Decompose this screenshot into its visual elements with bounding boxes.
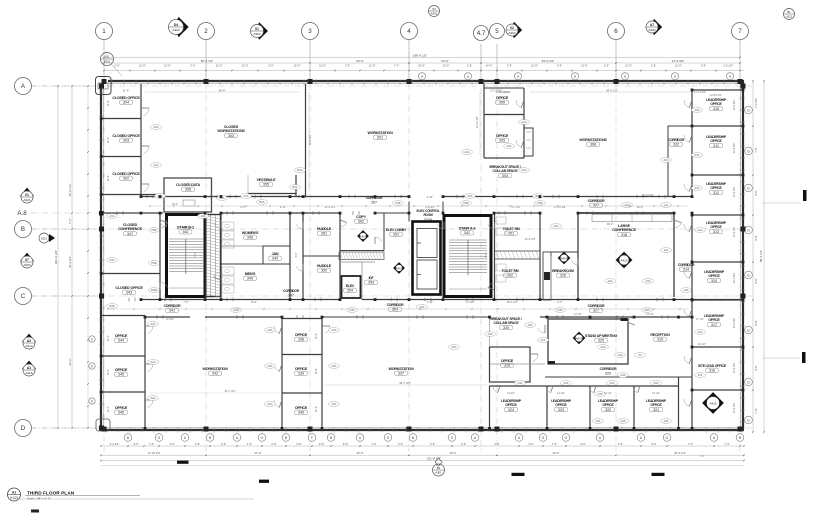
svg-text:12'-10": 12'-10" — [557, 392, 565, 395]
shaft east of stair B-2 (hatched) — [206, 215, 221, 297]
svg-text:LEADERSHIP: LEADERSHIP — [704, 270, 725, 274]
svg-text:A3A: A3A — [268, 328, 273, 332]
sheet edge mark bottom left — [31, 510, 39, 513]
svg-text:A321: A321 — [41, 236, 48, 240]
svg-text:28'-0": 28'-0" — [607, 222, 614, 226]
svg-text:A3A: A3A — [518, 381, 523, 385]
svg-text:12'-10": 12'-10" — [646, 313, 654, 316]
svg-text:325: 325 — [598, 339, 604, 343]
svg-text:26'-0 1/2": 26'-0 1/2" — [674, 451, 686, 455]
wall: corridor north wall y=196.5 — [141, 196, 408, 198]
svg-text:12'-6": 12'-6" — [443, 63, 450, 67]
svg-text:A2A: A2A — [151, 360, 156, 364]
window mullion ticks top wall — [111, 80, 113, 85]
svg-text:A3A: A3A — [695, 108, 700, 112]
svg-text:2'-6": 2'-6" — [114, 63, 119, 67]
svg-text:303: 303 — [228, 134, 234, 138]
svg-text:24'-6": 24'-6" — [552, 451, 559, 455]
svg-text:A.8: A.8 — [17, 210, 27, 217]
svg-text:7'-4 3/4": 7'-4 3/4" — [754, 98, 758, 108]
svg-text:HUDDLE: HUDDLE — [317, 227, 332, 231]
elevation marker A415 — [358, 231, 369, 242]
svg-text:11'-6": 11'-6" — [315, 368, 318, 374]
copy room walls — [340, 250, 384, 252]
svg-text:03: 03 — [105, 55, 109, 59]
svg-text:39'-0 1/2": 39'-0 1/2" — [542, 59, 555, 63]
top dimension tier 2 (segments) — [104, 70, 744, 72]
svg-text:LEADERSHIP: LEADERSHIP — [706, 98, 727, 102]
svg-text:A302: A302 — [648, 28, 655, 32]
svg-text:OFFICE: OFFICE — [602, 403, 614, 407]
svg-text:B3A: B3A — [293, 185, 298, 189]
right dimension tier 2 — [763, 81, 765, 432]
svg-text:BREAKOUT SPACE /: BREAKOUT SPACE / — [490, 317, 522, 321]
hatched band below copy room — [339, 252, 384, 260]
svg-text:5'-5": 5'-5" — [557, 300, 562, 304]
svg-text:3'-0": 3'-0" — [271, 442, 276, 446]
svg-text:346: 346 — [247, 236, 253, 240]
structural grid lines (horizontal) — [31, 85, 752, 87]
svg-text:340: 340 — [298, 411, 304, 415]
svg-text:PNE: PNE — [151, 261, 157, 265]
svg-text:C: C — [21, 293, 26, 300]
svg-text:10'-4": 10'-4" — [251, 300, 258, 304]
svg-text:1: 1 — [102, 28, 106, 35]
svg-text:33'-0": 33'-0" — [356, 59, 364, 63]
wall: vestibule — [248, 193, 296, 195]
office 338-340 column walls — [281, 319, 283, 431]
svg-text:A301: A301 — [435, 471, 442, 475]
svg-text:LARGE: LARGE — [618, 224, 631, 228]
svg-text:STAND UP MEETING: STAND UP MEETING — [585, 334, 618, 338]
svg-text:A3A: A3A — [465, 150, 470, 154]
svg-text:A3A: A3A — [244, 194, 249, 198]
svg-text:7'-0": 7'-0" — [688, 442, 693, 446]
exterior wall: bottom — [101, 429, 744, 431]
svg-text:CLOSED: CLOSED — [123, 223, 138, 227]
svg-text:3'-6": 3'-6" — [430, 442, 435, 446]
elevation marker A415 — [703, 393, 724, 414]
svg-text:12'-4 3/4": 12'-4 3/4" — [733, 100, 736, 111]
svg-text:337: 337 — [398, 372, 404, 376]
svg-text:304: 304 — [123, 101, 129, 105]
office 328 walls — [490, 347, 531, 382]
svg-text:COLLAB SPACE: COLLAB SPACE — [493, 169, 519, 173]
toilet fixtures — [496, 217, 506, 224]
grid bubble 3 — [302, 23, 319, 40]
svg-text:A3A: A3A — [618, 353, 623, 357]
svg-text:305: 305 — [499, 139, 505, 143]
svg-text:A415: A415 — [395, 266, 402, 270]
svg-text:07: 07 — [25, 258, 29, 262]
svg-text:G: G — [261, 436, 264, 440]
stair A-3 enclosure — [444, 216, 491, 297]
svg-text:VESTIBULE: VESTIBULE — [257, 178, 277, 182]
svg-text:3'-0": 3'-0" — [169, 442, 174, 446]
svg-text:213: 213 — [664, 248, 669, 252]
svg-text:301: 301 — [377, 136, 383, 140]
svg-text:303: 303 — [123, 139, 129, 143]
window mullion ticks left wall — [99, 91, 105, 93]
svg-text:A3A: A3A — [488, 332, 493, 336]
svg-text:16'-0": 16'-0" — [418, 63, 425, 67]
svg-text:a: a — [674, 75, 676, 79]
svg-text:329: 329 — [392, 308, 398, 312]
elevation marker A415 — [573, 332, 585, 344]
svg-text:OFFICE: OFFICE — [555, 403, 567, 407]
svg-text:a: a — [467, 75, 469, 79]
tags near bottom office row — [593, 419, 604, 424]
svg-text:COPY: COPY — [356, 215, 366, 219]
interior dim line y=91.5 workstations — [530, 91, 690, 93]
wall: corridor south wall y=213 — [101, 212, 163, 214]
svg-text:308: 308 — [590, 143, 596, 147]
svg-text:12'-10 3/4": 12'-10 3/4" — [710, 94, 722, 97]
svg-text:12'-4 3/4": 12'-4 3/4" — [733, 363, 736, 374]
svg-text:9'-11": 9'-11" — [280, 205, 286, 209]
svg-text:A3A: A3A — [601, 345, 606, 349]
svg-text:88'-2 1/2": 88'-2 1/2" — [759, 250, 763, 262]
stair A-3 treads — [449, 239, 487, 241]
right edge match-line bar 2 — [762, 357, 800, 359]
section marker 01/A321 — [20, 188, 34, 202]
svg-text:A3A: A3A — [110, 214, 115, 218]
svg-text:LEADERSHIP: LEADERSHIP — [551, 399, 572, 403]
svg-text:CLOSED OFFICE: CLOSED OFFICE — [112, 96, 140, 100]
svg-text:9'-6": 9'-6" — [580, 442, 585, 446]
detail circle 03/A311 near NW corner — [101, 53, 114, 66]
svg-text:330: 330 — [503, 326, 509, 330]
grid bubble 1 — [96, 23, 113, 40]
graphic scale bar 3 — [512, 473, 525, 476]
svg-text:A1: A1 — [12, 490, 16, 494]
svg-text:9'-6": 9'-6" — [754, 365, 758, 370]
large conference casework band — [592, 215, 672, 222]
svg-text:6'-5": 6'-5" — [240, 205, 245, 209]
svg-text:345: 345 — [118, 373, 124, 377]
svg-text:A3A: A3A — [507, 144, 512, 148]
svg-text:BREAKROOM: BREAKROOM — [552, 269, 574, 273]
svg-text:327: 327 — [593, 309, 599, 313]
svg-text:4'-0": 4'-0" — [247, 442, 252, 446]
structural grid lines (vertical) — [103, 40, 105, 452]
svg-text:A2A: A2A — [151, 322, 156, 326]
svg-text:A221: A221 — [786, 14, 793, 18]
svg-text:12'-0": 12'-0" — [164, 63, 171, 67]
svg-text:G: G — [565, 436, 568, 440]
svg-text:3'-0": 3'-0" — [494, 442, 499, 446]
svg-text:A3A: A3A — [332, 402, 337, 406]
svg-text:304: 304 — [502, 174, 508, 178]
svg-text:02: 02 — [510, 26, 514, 30]
svg-text:CLOSED OFFICE: CLOSED OFFICE — [112, 134, 140, 138]
svg-text:14'-6": 14'-6" — [486, 63, 493, 67]
structural columns at grid / wall intersections — [102, 79, 107, 84]
svg-text:5: 5 — [495, 28, 499, 35]
svg-text:LEADERSHIP: LEADERSHIP — [646, 399, 667, 403]
svg-text:OFFICE: OFFICE — [708, 274, 720, 278]
graphic scale bar 1 — [177, 461, 189, 464]
svg-text:G: G — [747, 418, 750, 422]
bottom dimension tier 1 — [101, 445, 744, 447]
svg-text:3: 3 — [308, 28, 312, 35]
svg-text:CLOSED: CLOSED — [224, 125, 239, 129]
svg-text:9'-6": 9'-6" — [296, 442, 301, 446]
svg-text:LEADERSHIP: LEADERSHIP — [704, 314, 725, 318]
svg-text:7'-6": 7'-6" — [754, 147, 758, 152]
svg-text:a: a — [729, 75, 731, 79]
svg-text:323: 323 — [558, 408, 564, 412]
svg-text:303A: 303A — [424, 218, 433, 222]
svg-text:211: 211 — [664, 203, 669, 207]
svg-text:B3B: B3B — [110, 304, 115, 308]
svg-text:B3A: B3A — [260, 200, 265, 204]
svg-text:A3K: A3K — [664, 419, 669, 423]
svg-text:A3A: A3A — [558, 308, 563, 312]
svg-text:A302: A302 — [508, 31, 515, 35]
svg-text:7'-3": 7'-3" — [699, 454, 704, 458]
svg-text:RECEPTION: RECEPTION — [650, 333, 670, 337]
svg-text:11'-6": 11'-6" — [107, 100, 110, 106]
svg-text:A3A: A3A — [621, 373, 626, 377]
svg-text:OFFICE: OFFICE — [710, 102, 722, 106]
svg-text:12'-0": 12'-0" — [675, 63, 682, 67]
svg-text:24'-9 3/4": 24'-9 3/4" — [672, 59, 685, 63]
svg-text:12'-4 3/4": 12'-4 3/4" — [733, 318, 736, 329]
section marker 01/A302 — [255, 22, 268, 40]
svg-text:2'-4 1/4": 2'-4 1/4" — [110, 442, 120, 446]
svg-text:CORRIDOR: CORRIDOR — [600, 367, 618, 371]
svg-text:CORRIDOR: CORRIDOR — [588, 304, 606, 308]
svg-text:12'-10 3/4": 12'-10 3/4" — [642, 193, 654, 197]
grid bubble 6 — [608, 23, 625, 40]
svg-text:18'-4 1/4": 18'-4 1/4" — [507, 300, 518, 304]
svg-text:12'-0": 12'-0" — [216, 63, 223, 67]
svg-text:12'-5 1/4": 12'-5 1/4" — [325, 205, 336, 209]
svg-text:347: 347 — [288, 294, 294, 298]
svg-text:12'-10": 12'-10" — [652, 392, 660, 395]
corridor dimension tick row (upper corridor) — [150, 205, 688, 207]
svg-text:2'-5 1/4": 2'-5 1/4" — [723, 63, 733, 67]
svg-text:A321: A321 — [23, 198, 30, 202]
svg-text:G: G — [747, 328, 750, 332]
svg-text:OFFICE: OFFICE — [708, 318, 720, 322]
jan room walls — [263, 246, 290, 264]
svg-text:17'-10": 17'-10" — [696, 317, 704, 321]
svg-text:B1: B1 — [787, 10, 791, 14]
svg-text:46'-6": 46'-6" — [218, 89, 225, 93]
svg-text:7'-0": 7'-0" — [183, 300, 188, 304]
svg-text:SITE LEAD OFFICE: SITE LEAD OFFICE — [698, 364, 727, 368]
svg-text:4.7: 4.7 — [477, 30, 486, 37]
svg-text:D4: D4 — [174, 23, 178, 27]
svg-text:12'-6": 12'-6" — [531, 63, 538, 67]
section marker A1/A320 — [22, 361, 36, 375]
toilet rm block walls x 494-540 — [494, 213, 496, 300]
svg-text:4: 4 — [407, 28, 411, 35]
svg-text:G: G — [747, 228, 750, 232]
svg-text:CORRIDOR: CORRIDOR — [283, 289, 300, 293]
svg-text:LEADERSHIP: LEADERSHIP — [598, 399, 619, 403]
left dimension tier 3 (detail ticks) — [87, 86, 89, 428]
svg-text:18'-0": 18'-0" — [449, 451, 456, 455]
junction blobs left strip — [100, 117, 103, 120]
interior dim line bottom workstations — [322, 384, 490, 386]
svg-text:G: G — [747, 149, 750, 153]
NW corner callout box — [96, 77, 112, 95]
svg-text:PNE: PNE — [151, 228, 157, 232]
svg-text:A2A: A2A — [151, 396, 156, 400]
svg-text:CORRIDOR: CORRIDOR — [164, 304, 182, 308]
svg-text:341: 341 — [169, 309, 175, 313]
svg-text:32'-6": 32'-6" — [68, 358, 72, 365]
svg-text:OFFICE: OFFICE — [115, 406, 128, 410]
svg-text:9'-6": 9'-6" — [754, 278, 758, 283]
svg-text:A3A: A3A — [684, 288, 689, 292]
svg-text:7'-6": 7'-6" — [552, 442, 557, 446]
left dimension tier 1 (overall) — [57, 86, 59, 428]
svg-text:CLOSED OFFICE: CLOSED OFFICE — [115, 286, 143, 290]
closet bump office 305 — [524, 128, 533, 156]
svg-text:349: 349 — [272, 257, 278, 261]
svg-text:10'-5 3/4": 10'-5 3/4" — [308, 134, 312, 145]
svg-text:B: B — [21, 226, 25, 233]
svg-text:12'-4 3/4": 12'-4 3/4" — [733, 187, 736, 198]
svg-text:PNE: PNE — [395, 201, 401, 205]
svg-text:3'-0": 3'-0" — [195, 442, 200, 446]
elev 354 shaft walls — [342, 276, 361, 298]
svg-text:306: 306 — [499, 101, 505, 105]
left dimension tier 2 (segments) — [71, 86, 73, 428]
graphic scale bar 4 — [652, 473, 665, 476]
section marker D4/A302 — [173, 17, 188, 37]
svg-text:17'-11 3/4": 17'-11 3/4" — [694, 90, 706, 94]
svg-text:OFFICE: OFFICE — [710, 186, 722, 190]
svg-text:IDF: IDF — [369, 276, 374, 280]
elevation marker A415 — [558, 252, 570, 264]
corridor dimension tick row (lower corridor) — [108, 308, 688, 310]
svg-text:2'-11": 2'-11" — [427, 300, 433, 304]
svg-text:315: 315 — [713, 107, 719, 111]
breakroom walls — [551, 251, 578, 253]
svg-text:356: 356 — [185, 188, 191, 192]
svg-text:166'-8 1/2": 166'-8 1/2" — [413, 53, 428, 57]
svg-text:b: b — [91, 399, 93, 403]
svg-text:D: D — [21, 425, 26, 432]
svg-text:343: 343 — [126, 291, 132, 295]
svg-text:OFFICE: OFFICE — [710, 139, 722, 143]
svg-text:A3A: A3A — [596, 419, 601, 423]
svg-text:11'-10": 11'-10" — [166, 317, 174, 321]
right window tag circles — [745, 106, 753, 114]
svg-text:WORKSTATIONS: WORKSTATIONS — [217, 129, 245, 133]
svg-text:G: G — [747, 273, 750, 277]
svg-text:ROOM: ROOM — [423, 213, 433, 217]
svg-text:332: 332 — [673, 143, 679, 147]
breakroom shaft strip (hatch) — [543, 252, 551, 300]
svg-text:WORKSTATIONS: WORKSTATIONS — [579, 138, 607, 142]
svg-text:A303: A303 — [23, 263, 30, 267]
svg-text:A3A: A3A — [528, 323, 533, 327]
svg-text:A302: A302 — [172, 28, 179, 32]
wall tags — [151, 125, 162, 130]
svg-text:G: G — [747, 108, 750, 112]
svg-text:26'-8": 26'-8" — [637, 205, 644, 209]
svg-text:313: 313 — [713, 230, 719, 234]
svg-text:A302: A302 — [253, 32, 260, 36]
svg-text:326: 326 — [560, 274, 566, 278]
detail circle B1/A221 top right — [784, 9, 795, 20]
svg-text:a: a — [517, 75, 519, 79]
bottom leadership office row walls — [490, 385, 679, 387]
svg-text:CORRIDOR: CORRIDOR — [668, 138, 685, 142]
svg-text:20'-0": 20'-0" — [356, 451, 363, 455]
svg-text:355: 355 — [263, 183, 269, 187]
svg-text:B1: B1 — [437, 466, 441, 470]
svg-text:3'-0": 3'-0" — [133, 442, 138, 446]
grid bubble C — [15, 288, 32, 305]
svg-text:A320: A320 — [25, 371, 32, 375]
svg-text:10'-1": 10'-1" — [172, 202, 179, 206]
svg-text:317: 317 — [711, 323, 717, 327]
svg-text:G: G — [158, 436, 161, 440]
svg-text:2'-11": 2'-11" — [427, 195, 433, 199]
svg-text:321: 321 — [653, 408, 659, 412]
large conference walls — [578, 212, 674, 214]
svg-text:347: 347 — [127, 232, 133, 236]
svg-text:9'-0": 9'-0" — [295, 252, 298, 257]
wall: closed office 343 south y=315.5 — [101, 315, 145, 317]
svg-text:A415: A415 — [359, 234, 366, 238]
svg-text:11'-6": 11'-6" — [123, 89, 130, 93]
door jamb ticks along corridors — [146, 195, 148, 199]
svg-text:324: 324 — [508, 408, 514, 412]
closed conference 347 walls — [159, 213, 161, 300]
column blob at left wall A.8 — [99, 211, 104, 216]
svg-text:MEN'S: MEN'S — [245, 272, 256, 276]
marker A321 with circle — [39, 233, 49, 243]
svg-text:310: 310 — [711, 279, 717, 283]
toilet block walls x 221-290 — [220, 213, 222, 300]
svg-text:3'-0": 3'-0" — [319, 442, 324, 446]
svg-text:OFFICE: OFFICE — [295, 406, 308, 410]
elevator car 1 — [417, 229, 437, 258]
stair B-2 landing line — [169, 287, 203, 289]
bottom dimension tier 2 — [101, 454, 744, 456]
svg-text:OFFICE: OFFICE — [505, 403, 517, 407]
svg-text:A3A: A3A — [695, 153, 700, 157]
svg-text:CLOSED OFFICE: CLOSED OFFICE — [112, 172, 140, 176]
right edge match-line bar 1 — [762, 202, 801, 204]
svg-text:A415: A415 — [560, 256, 567, 260]
extra faint bottom tier — [101, 465, 744, 467]
svg-text:11'-10": 11'-10" — [507, 392, 515, 395]
svg-text:HUDDLE: HUDDLE — [317, 264, 332, 268]
svg-text:17'-10 3/4": 17'-10 3/4" — [147, 451, 160, 455]
svg-text:PNE: PNE — [537, 201, 543, 205]
svg-text:101'-2 3/4": 101'-2 3/4" — [54, 250, 58, 264]
walls: right office partitions — [692, 89, 743, 91]
svg-text:342: 342 — [464, 231, 470, 235]
svg-text:A3A: A3A — [154, 125, 159, 129]
svg-text:A3A: A3A — [332, 364, 337, 368]
svg-text:353: 353 — [368, 281, 374, 285]
interior vertical dim by wall x=484 — [479, 92, 481, 155]
svg-text:342: 342 — [212, 372, 218, 376]
svg-text:G: G — [387, 436, 390, 440]
stair B-2 treads — [169, 238, 203, 240]
svg-text:9'-6": 9'-6" — [754, 190, 758, 195]
